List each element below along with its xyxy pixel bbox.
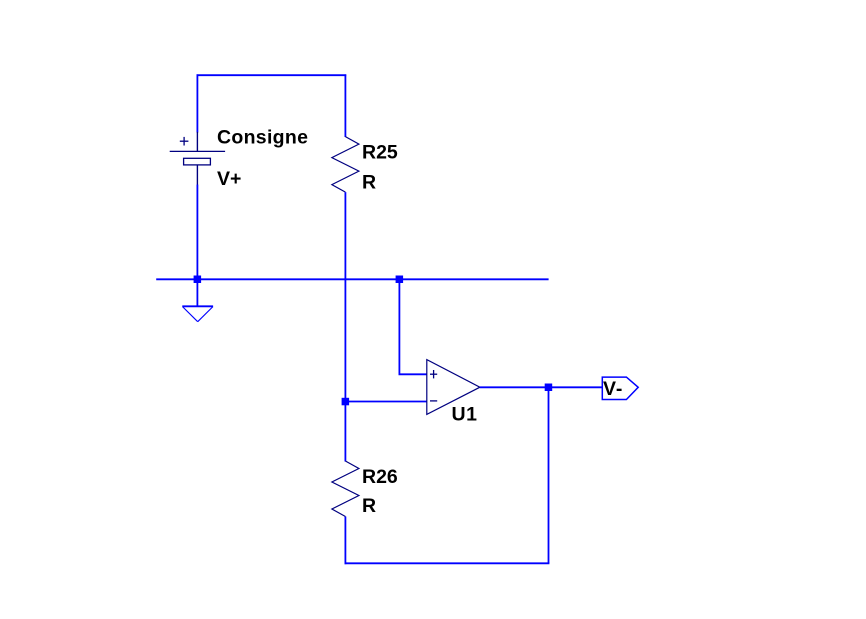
battery negative plate box xyxy=(184,158,211,165)
wire op-amp output to flag xyxy=(480,386,603,388)
wire from rail down to non-inverting input (vertical) xyxy=(398,279,400,374)
svg-text:U1: U1 xyxy=(452,404,478,426)
battery positive plate xyxy=(170,150,225,152)
svg-text:V-: V- xyxy=(603,378,623,400)
junction node at battery and rail xyxy=(194,276,202,284)
battery bottom lead stub xyxy=(196,165,198,185)
wire left vertical (top corner down to battery) xyxy=(196,74,198,132)
wire R26 bottom vertical xyxy=(344,517,346,565)
resistor R26 xyxy=(332,461,359,517)
wire ground rail horizontal xyxy=(156,278,548,280)
junction node at rail and op-amp + branch xyxy=(396,276,404,284)
wire R25 top vertical xyxy=(344,74,346,137)
wire R25 bottom down through rail to inverting node xyxy=(344,192,346,461)
voltage source V1 battery symbol xyxy=(170,132,225,185)
svg-text:V+: V+ xyxy=(217,168,241,190)
svg-text:R: R xyxy=(362,495,376,517)
label R25 xyxy=(362,142,398,164)
svg-text:Consigne: Consigne xyxy=(217,127,308,149)
ground xyxy=(182,306,213,321)
minus input mark xyxy=(430,400,437,402)
label U1 xyxy=(452,404,478,426)
plus input mark xyxy=(430,370,437,378)
wire top horizontal (V+ to R25 top) xyxy=(197,74,347,76)
op-amp U1 xyxy=(427,360,480,415)
svg-text:R: R xyxy=(362,172,376,194)
value R of R26 xyxy=(362,495,376,517)
junction node at inverting input xyxy=(342,398,350,406)
wire bottom horizontal (R26 bottom to feedback) xyxy=(345,562,550,564)
label V- xyxy=(603,378,623,400)
battery top lead stub xyxy=(196,132,198,152)
wire feedback vertical (output down to bottom) xyxy=(548,387,550,563)
value R of R25 xyxy=(362,172,376,194)
resistor R25 xyxy=(332,137,359,193)
value V+ (source value) xyxy=(217,168,241,190)
svg-text:R26: R26 xyxy=(362,466,398,488)
label R26 xyxy=(362,466,398,488)
junction node at output feedback xyxy=(545,384,553,392)
net flag V- outline xyxy=(602,377,638,399)
wire battery bottom to ground rail xyxy=(196,185,198,307)
plus sign of battery xyxy=(180,137,189,146)
wire from inverting node to inverting input xyxy=(345,401,427,403)
label Consigne (source name) xyxy=(217,127,308,149)
wire into non-inverting input (horizontal) xyxy=(399,373,428,375)
svg-text:R25: R25 xyxy=(362,142,398,164)
